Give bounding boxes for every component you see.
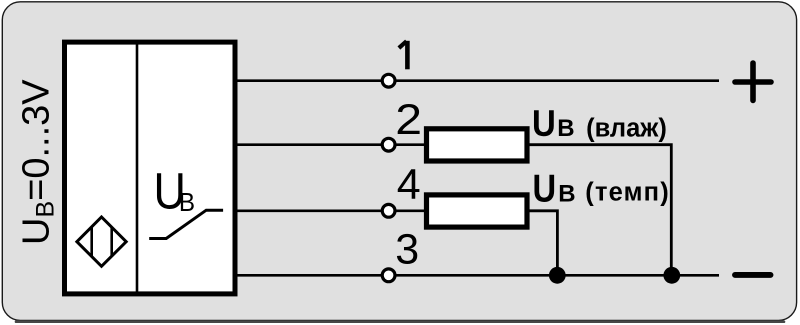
junction dot (temp to minus) [549,267,566,284]
pin number 1 [399,41,408,70]
wire pin 3 (minus bus) [237,274,719,277]
svg-text:2: 2 [395,96,422,144]
sensor box divider [136,40,139,295]
svg-text:(влаж): (влаж) [586,114,667,142]
svg-text:В: В [557,115,574,142]
svg-text:(темп): (темп) [585,178,670,206]
switch contact [149,210,223,238]
svg-text:3: 3 [395,226,419,274]
wire pin 1 [237,79,719,82]
terminal pin 2 [382,138,395,151]
svg-text:UB=0...3V: UB=0...3V [16,79,60,245]
junction dot (vlazh to minus) [663,267,680,284]
inductive sensor symbol (diamond) [77,217,126,266]
wire pin 4 [237,210,424,213]
svg-text:U: U [533,167,557,210]
frame bottom shadow edge [16,320,784,323]
terminal pin 4 [382,204,395,217]
sensor box [65,42,236,294]
minus symbol [735,272,771,278]
resistor R-temp [427,195,528,227]
wire pin 2 [237,143,424,146]
plus symbol [735,63,771,100]
svg-text:В: В [558,181,575,208]
wire from R-temp to minus bus [529,211,557,275]
svg-text:B: B [179,189,195,218]
svg-text:4: 4 [397,161,421,209]
terminal pin 3 [382,269,395,282]
terminal pin 1 [382,74,395,87]
resistor R-vlazh [427,129,528,161]
svg-text:U: U [532,103,556,144]
wire from R-vlazh to minus bus [529,145,671,276]
